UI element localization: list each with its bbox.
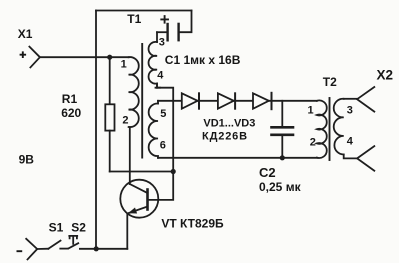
connector X1 minus terminal	[26, 239, 37, 260]
VT collector wire from T1 pin2	[129, 127, 131, 184]
svg-text:S1: S1	[49, 220, 64, 234]
T1 winding 5-6	[149, 103, 158, 157]
node R1 top junction	[107, 55, 112, 60]
svg-text:3: 3	[159, 36, 165, 48]
svg-text:X2: X2	[377, 67, 394, 82]
svg-text:T2: T2	[323, 75, 337, 89]
svg-text:4: 4	[157, 69, 164, 81]
VT base bar	[146, 190, 149, 210]
capacitor C2	[272, 101, 294, 158]
wire diode rail	[158, 100, 317, 102]
svg-text:VD1...VD3: VD1...VD3	[203, 118, 255, 130]
svg-text:3: 3	[347, 104, 353, 116]
switch S1	[48, 241, 60, 249]
svg-text:X1: X1	[18, 27, 33, 41]
connector X1 plus terminal	[29, 47, 40, 68]
svg-text:КД226В: КД226В	[202, 131, 248, 143]
switch S2	[69, 236, 79, 249]
capacitor C1	[157, 11, 192, 41]
VT emitter arrow	[128, 208, 137, 214]
svg-text:1: 1	[121, 58, 127, 70]
svg-text:4: 4	[347, 135, 354, 147]
svg-text:1: 1	[308, 104, 314, 116]
T1 pin3 lead	[156, 32, 158, 42]
diode VD3	[253, 93, 272, 109]
svg-text:C2: C2	[259, 165, 276, 180]
transformer T2	[317, 98, 357, 160]
VT emitter wire down	[126, 214, 128, 249]
connector X2 top terminal	[357, 87, 374, 112]
wire X1 plus to T1 pin1	[40, 56, 129, 58]
wire S1 to S2	[60, 248, 68, 250]
T1 winding 3-4	[149, 42, 157, 88]
svg-text:5: 5	[160, 108, 166, 120]
C1 plus mark	[161, 16, 168, 23]
label X1 minus sign	[17, 250, 23, 252]
svg-text:T1: T1	[127, 12, 141, 26]
T2 pin4 lead	[344, 155, 357, 159]
node C2 bottom junction	[280, 155, 285, 160]
label X1 plus sign	[20, 51, 27, 58]
T2 winding 3-4	[334, 99, 344, 155]
diode VD2	[218, 93, 235, 108]
svg-text:C1 1мк x 16В: C1 1мк x 16В	[165, 53, 241, 67]
node bottom rail / left rail junction	[94, 246, 99, 251]
svg-text:9В: 9В	[19, 152, 35, 166]
T2 pin3 lead	[344, 98, 357, 100]
svg-text:620: 620	[61, 106, 81, 120]
T1 pin4 lead corner	[157, 84, 160, 88]
connector X2 bottom terminal	[357, 146, 374, 171]
wire top common rail	[96, 10, 192, 12]
VT circle	[120, 180, 158, 218]
svg-text:2: 2	[310, 137, 316, 149]
diode VD1	[182, 93, 199, 108]
svg-text:6: 6	[160, 139, 166, 151]
transformer T1	[129, 32, 160, 158]
VT emitter diagonal	[128, 207, 147, 214]
T2 core	[329, 98, 331, 160]
T1 core	[141, 44, 143, 158]
wire R1 bottom to base node	[110, 171, 174, 173]
svg-text:S2: S2	[71, 220, 86, 234]
wire T1 pin6 to T2 pin2	[158, 157, 317, 159]
wire X1 minus to S1	[37, 248, 48, 250]
transistor VT	[120, 127, 158, 249]
wire S2 to emitter (bottom rail)	[80, 248, 127, 250]
T1 pin5 lead	[157, 101, 159, 104]
svg-text:VT КТ829Б: VT КТ829Б	[161, 216, 224, 230]
node base junction dot	[171, 169, 176, 174]
svg-text:2: 2	[122, 115, 128, 127]
resistor R1	[105, 57, 114, 171]
svg-text:0,25 мк: 0,25 мк	[259, 180, 302, 194]
VT collector diagonal	[130, 184, 148, 193]
T1 winding 1-2 (primary)	[129, 57, 139, 127]
wire left rail vertical	[95, 11, 97, 249]
wire T1 pin4 down to base	[148, 88, 173, 200]
svg-text:R1: R1	[62, 92, 78, 106]
T2 winding 1-2	[317, 100, 327, 158]
